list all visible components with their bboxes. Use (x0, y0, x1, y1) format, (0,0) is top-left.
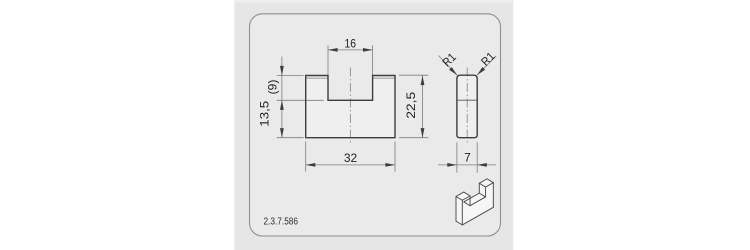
arrowhead R1 right leader (477, 67, 485, 75)
front view outline (306, 76, 395, 138)
dim line 32 (306, 164, 395, 166)
ext line 7 left (456, 142, 458, 172)
arrowhead dim 32 left (306, 163, 316, 167)
svg-text:(9): (9) (266, 80, 280, 95)
side view outline (457, 75, 477, 138)
centerline side view (466, 68, 468, 145)
arrowhead dim (9) top (280, 66, 284, 76)
ext line 32 left (305, 142, 307, 172)
dim line 13,5 / (9) (281, 57, 283, 138)
svg-text:13,5: 13,5 (258, 100, 272, 126)
iso notch bottom face (464, 193, 486, 206)
svg-text:7: 7 (464, 150, 471, 164)
iso notch right wall face (479, 183, 485, 197)
card panel (250, 14, 501, 236)
iso left ear top front edge (462, 196, 470, 200)
ext line notch level left (277, 99, 324, 101)
iso front bottom edge (462, 207, 493, 225)
iso notch bottom front edge (470, 197, 486, 206)
iso left end top edge (456, 196, 462, 200)
iso left ear top face (456, 192, 470, 200)
iso notch left wall front edge (469, 196, 471, 206)
arrowhead dim 7 left (447, 163, 457, 167)
iso front right edge (492, 183, 494, 208)
dim line 7 (438, 164, 496, 166)
arrowheads (280, 48, 487, 167)
arrowhead dim 16 right (363, 48, 373, 52)
arrowhead dim 13,5 bottom (280, 128, 284, 138)
iso front face (462, 183, 493, 225)
iso left ear top back edge (456, 192, 464, 196)
arrowhead dim 22,5 bottom (421, 128, 425, 138)
iso right ear top front edge (486, 183, 494, 187)
svg-text:32: 32 (344, 151, 358, 165)
R1 right leader (477, 56, 496, 75)
iso left end back edge (455, 196, 457, 221)
iso right ear top left edge (479, 183, 485, 187)
ext line 22,5 bottom (399, 137, 428, 139)
iso notch bottom back edge (464, 193, 480, 202)
arrowhead R1 left leader (449, 67, 457, 75)
arrowhead dim 16 left (328, 48, 338, 52)
iso front left edge (461, 200, 463, 225)
ext line 32 right (394, 142, 396, 172)
front view face fill (306, 76, 395, 138)
svg-text:16: 16 (345, 36, 357, 50)
iso right ear top face (479, 179, 493, 187)
R1 tangent line right ear (373, 77, 395, 79)
iso notch right wall back edge (478, 183, 480, 193)
iso right ear top right edge (487, 179, 493, 183)
dim line 16 (328, 49, 373, 51)
gray backdrop band (234, 0, 513, 250)
centerline front view (349, 68, 351, 144)
ext line 16 left (327, 45, 329, 75)
iso right ear top back edge (479, 179, 487, 183)
iso left end bottom edge (456, 221, 462, 225)
ext line 16 right (372, 45, 374, 75)
arrowhead dim 13,5 top (280, 100, 284, 110)
svg-text:2.3.7.586: 2.3.7.586 (264, 217, 299, 228)
iso left end face (456, 196, 462, 224)
ext line 7 right (476, 142, 478, 172)
iso notch right wall bottom edge (479, 193, 485, 197)
arrowhead dim 32 right (385, 163, 395, 167)
arrowhead dim 7 right (477, 163, 487, 167)
iso notch bottom left edge (464, 202, 470, 206)
arrowhead dim 22,5 top (421, 76, 425, 86)
iso notch right wall front edge (485, 187, 487, 197)
R1 tangent line left ear (306, 77, 328, 79)
ext line bottom-left (277, 137, 304, 139)
svg-text:22,5: 22,5 (404, 91, 418, 118)
R1 left leader (439, 56, 458, 76)
iso left ear top right edge (464, 192, 470, 196)
side view notch-bottom edge (457, 99, 477, 101)
ext line 22,5 top (399, 74, 428, 76)
ext line top-left (277, 75, 304, 77)
dim line 22,5 (422, 76, 424, 138)
side view face fill (457, 75, 477, 138)
lighter strip at band top (234, 0, 513, 2)
